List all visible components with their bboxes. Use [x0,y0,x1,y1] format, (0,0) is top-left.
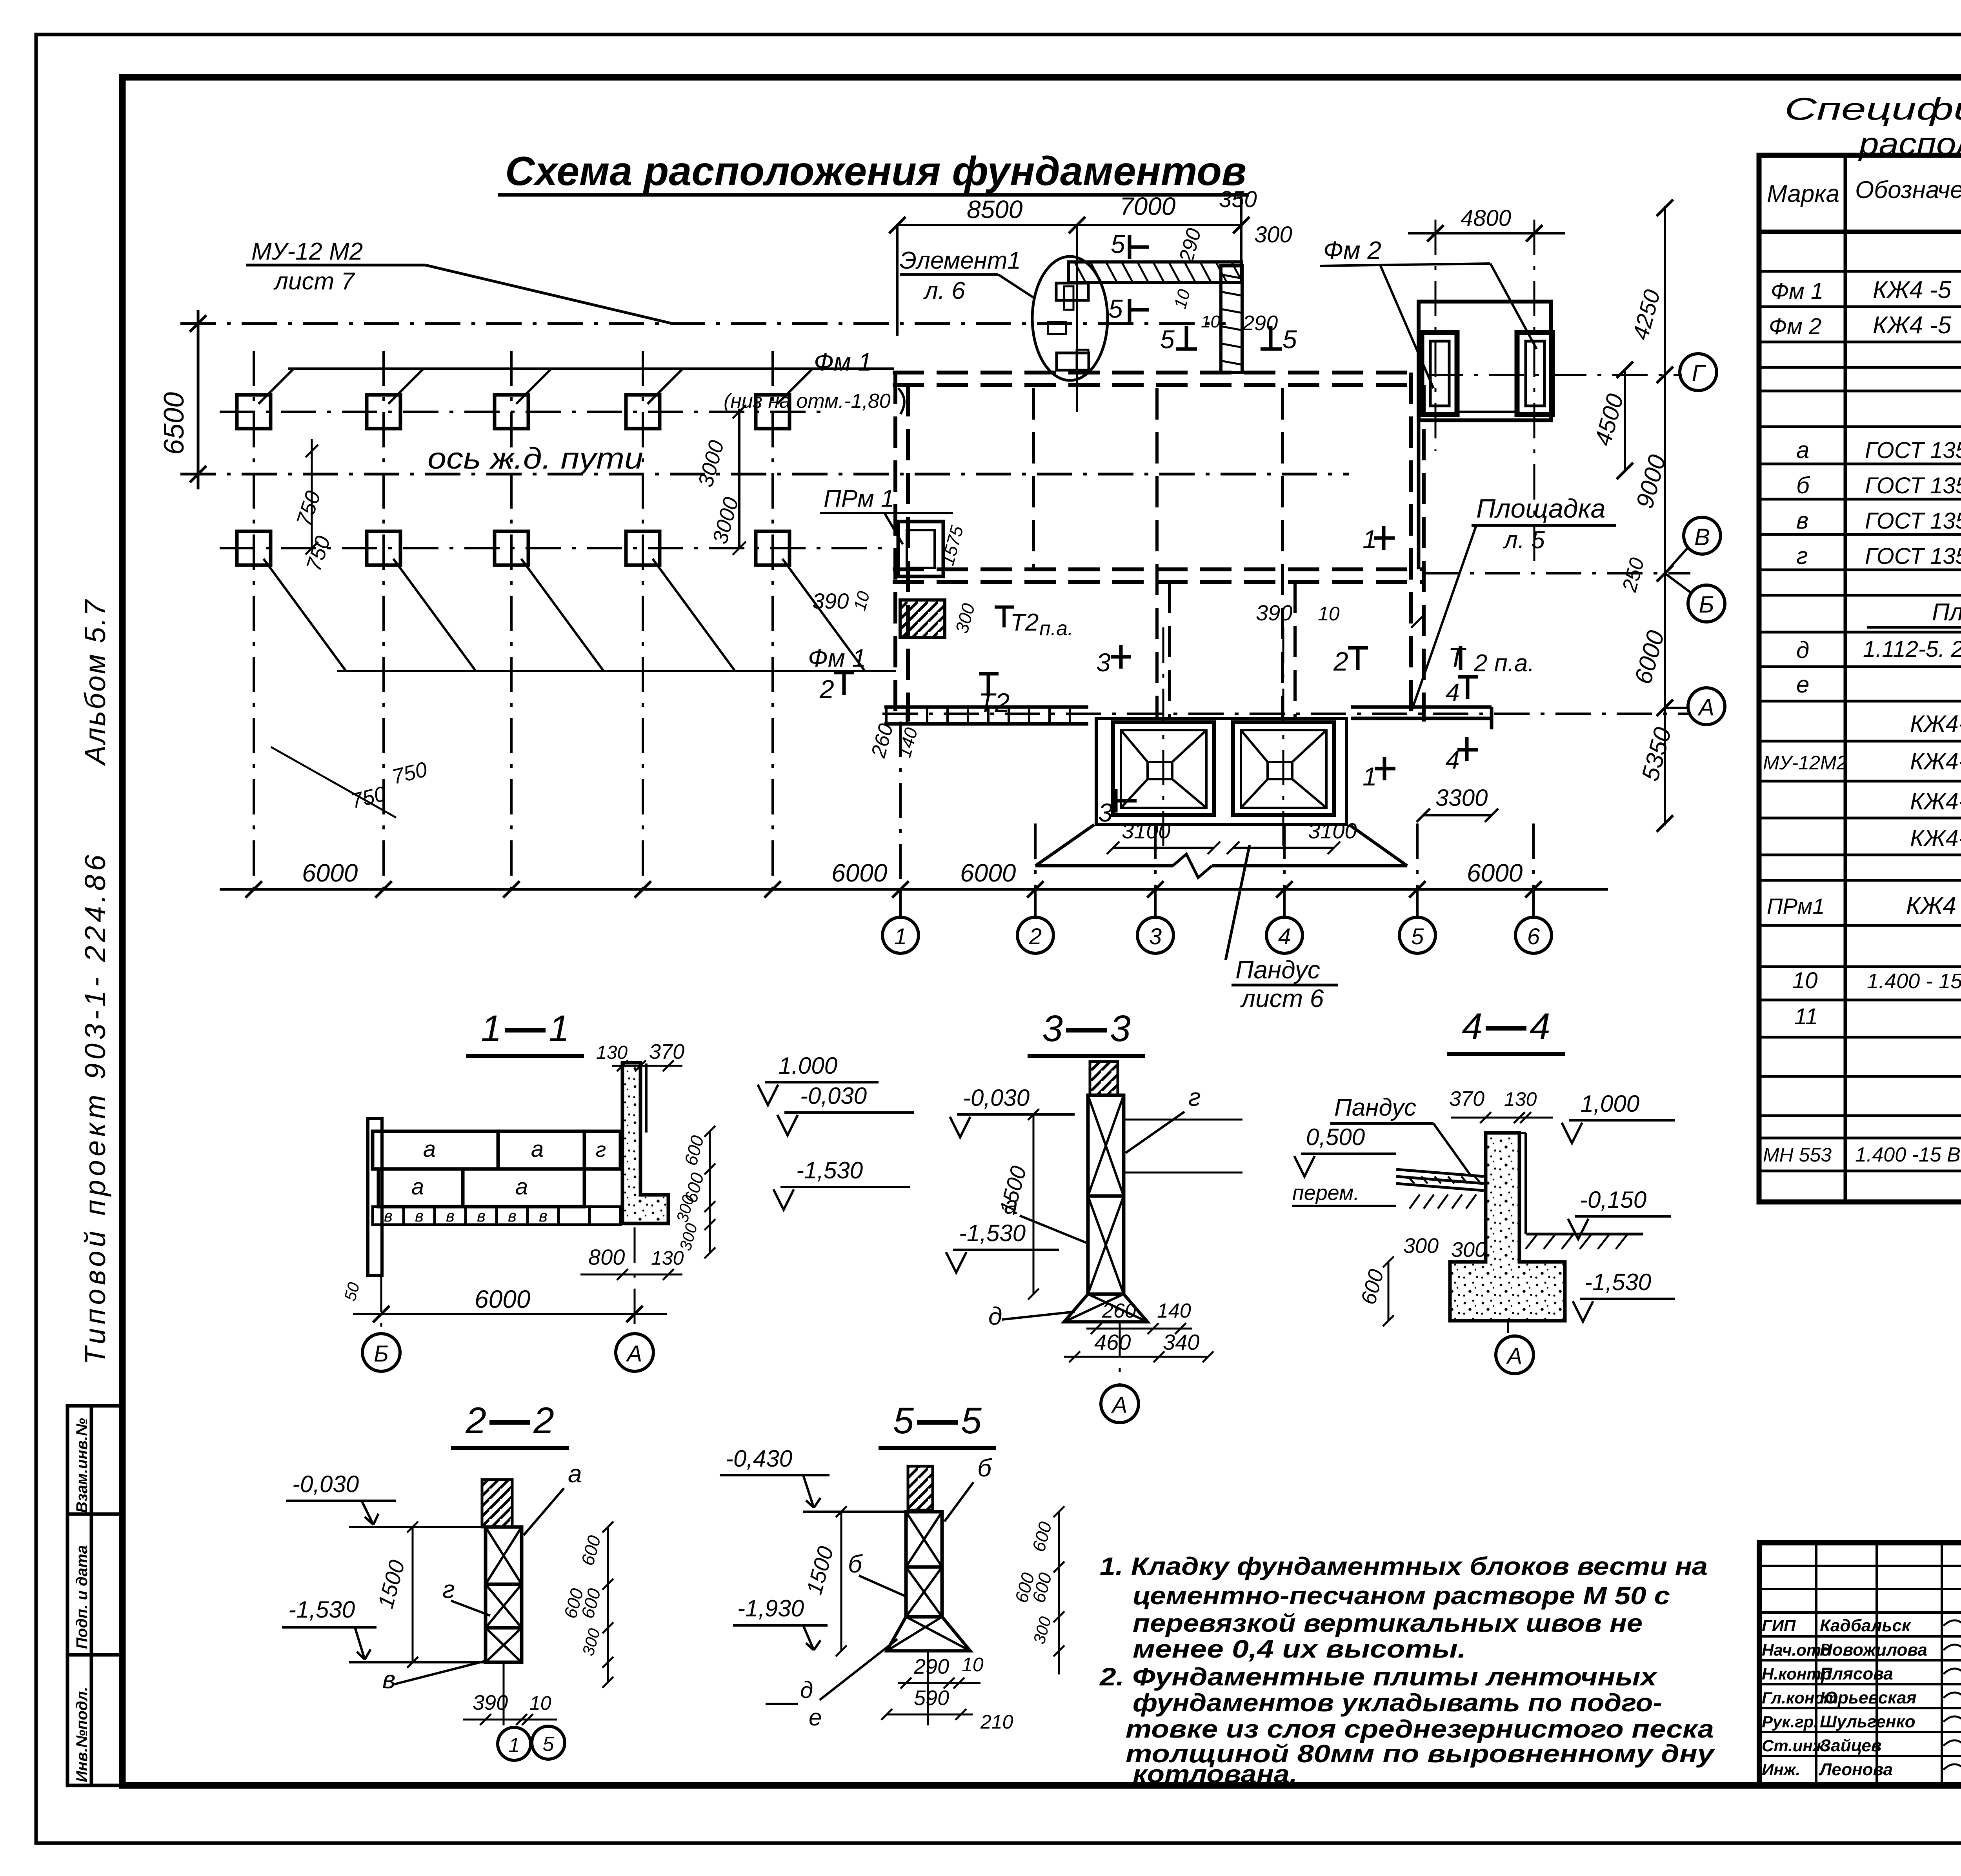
section 1-1 axis circles [362,1334,400,1371]
svg-text:4: 4 [1446,678,1460,707]
svg-text:800: 800 [588,1245,625,1269]
section 3-3 wall above (hatched) [1090,1062,1118,1095]
svg-text:КЖ4 -5: КЖ4 -5 [1873,276,1952,304]
svg-text:10: 10 [1318,603,1340,625]
svg-text:1: 1 [894,924,907,949]
svg-text:в: в [415,1207,424,1225]
Fm2 block 2 [1517,333,1552,414]
svg-text:в: в [446,1207,455,1225]
title block frame [1759,1543,1961,1785]
svg-text:Площадка: Площадка [1476,494,1605,524]
svg-text:-1,530: -1,530 [959,1220,1026,1246]
pits (coal receiving) boundary [1096,718,1346,825]
svg-text:д: д [800,1677,813,1703]
svg-text:Схема расположения фундамент: Схема расположения фундаментов [505,149,1246,194]
svg-text:Плясова: Плясова [1820,1664,1893,1683]
svg-text:Новожилова: Новожилова [1820,1640,1927,1660]
svg-text:Спецификация элементов к: Спецификация элементов к схеме [1785,91,1961,126]
svg-text:2: 2 [819,674,834,703]
svg-text:2: 2 [465,1400,486,1442]
interior partition x2950 [1155,388,1159,720]
interior partition x2635 [1032,388,1035,569]
svg-text:г: г [596,1138,606,1162]
svg-text:ГОСТ 13579 -78: ГОСТ 13579 -78 [1865,438,1961,463]
building right wall col 5 [1409,373,1413,722]
svg-text:А: А [626,1341,642,1367]
svg-text:2: 2 [1333,647,1348,676]
svg-text:д: д [988,1302,1002,1330]
svg-text:КЖ4 -5: КЖ4 -5 [1873,312,1952,339]
svg-text:е: е [1796,671,1809,698]
svg-text:В: В [1694,524,1710,550]
svg-text:г: г [1796,543,1808,569]
svg-text:А: А [1697,694,1714,720]
section 2-2 column blocks [486,1527,522,1584]
svg-text:в: в [384,1207,393,1225]
svg-text:1.112-5. 2.09.000: 1.112-5. 2.09.000 [1863,636,1961,662]
section 5-5 column blocks [906,1512,942,1567]
section 1-1 foundation column [622,1063,668,1223]
svg-text:Юрьевская: Юрьевская [1820,1688,1917,1707]
svg-text:350: 350 [1219,187,1257,212]
svg-text:4: 4 [1278,924,1291,949]
section 2-2 wall above (hatched) [482,1480,512,1527]
foundation squares Fm1 row 1 [237,395,271,429]
bottom dimension line [220,888,1608,891]
svg-text:290: 290 [913,1655,949,1678]
svg-text:130: 130 [1504,1088,1537,1110]
section 4-4 ramp slab [1396,1169,1484,1176]
section 3-3 axis circle A [1101,1385,1139,1423]
section 4-4 column (concrete) [1450,1133,1565,1321]
svg-text:3100: 3100 [1308,818,1357,843]
svg-text:370: 370 [649,1040,684,1063]
svg-text:-0,150: -0,150 [1580,1187,1646,1213]
building wall line G [893,371,1424,374]
svg-text:590: 590 [914,1686,949,1710]
svg-text:а: а [423,1136,436,1162]
svg-text:Подп. и дата: Подп. и дата [73,1545,91,1649]
svg-text:3: 3 [1042,1008,1063,1049]
svg-text:МУ-12М2: МУ-12М2 [1763,752,1848,774]
platform outline [1419,302,1551,420]
Pandus list 6 label [1226,845,1250,960]
svg-text:г: г [1188,1083,1201,1111]
svg-text:Марка: Марка [1767,180,1839,207]
section 1-1 masonry blocks [373,1131,498,1169]
axis circle G [1680,354,1717,391]
svg-text:6000: 6000 [831,859,888,887]
svg-text:Шульгенко: Шульгенко [1820,1712,1916,1731]
svg-text:5: 5 [1111,229,1125,258]
svg-text:370: 370 [1449,1087,1484,1111]
svg-text:Ст.инж.: Ст.инж. [1762,1736,1829,1755]
svg-text:-1,530: -1,530 [1584,1269,1651,1295]
svg-text:6000: 6000 [960,859,1016,887]
section 2-2 right dims [607,1527,609,1682]
svg-text:3: 3 [1096,648,1111,677]
section 4-4 axis circle [1507,1321,1509,1333]
axis G continuation [1428,374,1549,376]
svg-text:Обозначение: Обозначение [1855,176,1961,204]
svg-text:лист 7: лист 7 [273,268,355,295]
svg-text:-1,530: -1,530 [796,1157,863,1183]
svg-text:4: 4 [1462,1006,1483,1047]
svg-text:6000: 6000 [475,1285,531,1313]
svg-text:1,000: 1,000 [1581,1091,1639,1117]
section 1-1 left wall [368,1118,382,1276]
section 1-1 right rotated dims [709,1131,711,1253]
svg-text:Г: Г [1692,360,1706,386]
svg-text:А: А [1111,1392,1128,1418]
svg-text:в: в [382,1665,395,1694]
svg-text:-1,930: -1,930 [737,1595,804,1622]
svg-text:ГИП: ГИП [1762,1616,1796,1635]
svg-text:фундаментов укладывать по п: фундаментов укладывать по подго- [1133,1689,1662,1717]
svg-text:ГОСТ 13579 -78: ГОСТ 13579 -78 [1865,473,1961,498]
svg-text:Леонова: Леонова [1819,1760,1893,1779]
block centerlines [1435,220,1437,451]
axis circle B [1688,585,1725,622]
svg-text:в: в [1796,507,1808,534]
foundation squares Fm1 row 2 [237,531,271,565]
svg-text:-1,530: -1,530 [288,1596,355,1623]
section 3-3 column blocks [1088,1095,1124,1196]
ramp [1035,825,1094,866]
svg-text:перевязкой вертикальных швов: перевязкой вертикальных швов не [1133,1609,1643,1637]
svg-text:1.000: 1.000 [779,1053,837,1079]
dims 3000 3000 [738,409,740,549]
section 2-2 dim 1500 [412,1527,414,1662]
building left wall col 1 [893,373,897,722]
column verticals below building [1034,823,1037,889]
svg-text:Пандус: Пандус [1235,956,1320,984]
svg-text:3: 3 [1098,798,1113,827]
svg-text:котлована.: котлована. [1133,1760,1297,1788]
svg-text:6000: 6000 [302,859,358,887]
svg-text:3100: 3100 [1122,818,1171,843]
pit 1 [1113,722,1214,815]
svg-text:5: 5 [961,1400,982,1442]
svg-text:а: а [515,1174,528,1200]
svg-text:б: б [848,1550,863,1578]
svg-text:Плиты для ленточных фундамен: Плиты для ленточных фундаментов [1932,599,1961,626]
svg-text:5: 5 [543,1733,555,1756]
svg-text:5: 5 [1411,924,1424,949]
svg-text:260: 260 [1102,1300,1136,1322]
svg-text:менее 0,4 их высоты.: менее 0,4 их высоты. [1133,1635,1466,1663]
svg-text:1: 1 [549,1008,569,1049]
svg-text:2: 2 [1029,924,1042,949]
column grid dash-dot verticals [253,351,255,889]
svg-text:КЖ4-6: КЖ4-6 [1910,711,1961,737]
specification table grid [1759,155,1961,1202]
svg-text:в: в [508,1207,517,1225]
pit 2 [1233,722,1334,815]
svg-text:КЖ4-6: КЖ4-6 [1910,825,1961,851]
section 3-3 dim 1500 [1033,1114,1035,1294]
svg-text:а: а [531,1136,544,1162]
dim line 4500 [1624,370,1626,471]
svg-text:Инж.: Инж. [1762,1760,1800,1779]
svg-text:10: 10 [529,1692,551,1714]
svg-text:-0,430: -0,430 [726,1445,792,1472]
svg-text:(низ на отм.-1,80: (низ на отм.-1,80 [724,390,891,413]
pit PRm1 [898,522,943,576]
svg-text:7000: 7000 [1120,192,1176,220]
column axis circles 1-6 [899,889,902,918]
element1 balloon [1032,256,1108,380]
svg-text:ось ж.д. пути: ось ж.д. пути [427,442,643,475]
row2 center line [220,547,890,549]
svg-text:3: 3 [1149,924,1162,949]
svg-text:КЖ4-7: КЖ4-7 [1910,748,1961,774]
svg-text:Зайцев: Зайцев [1820,1736,1881,1755]
svg-text:-0,030: -0,030 [963,1085,1030,1111]
dim 4800 [1408,232,1565,234]
axis circle V [1684,517,1721,554]
svg-text:л. 5: л. 5 [1503,527,1545,554]
svg-text:2 п.а.: 2 п.а. [1473,650,1535,677]
svg-text:Б: Б [1699,591,1714,618]
svg-text:2. Фундаментные плиты ленто: 2. Фундаментные плиты ленточных [1099,1663,1658,1691]
svg-text:10: 10 [962,1654,984,1676]
svg-text:д: д [1796,637,1809,663]
svg-text:а: а [1796,437,1809,463]
axis circle A [1688,688,1725,725]
svg-text:210: 210 [980,1711,1013,1733]
axis A dash-dot [882,713,1690,715]
svg-text:ГОСТ 13579 -78: ГОСТ 13579 -78 [1865,508,1961,534]
svg-text:6500: 6500 [158,392,190,455]
svg-text:МУ-12 М2: МУ-12 М2 [251,238,363,265]
svg-text:МН 553: МН 553 [1763,1144,1832,1166]
svg-text:300: 300 [1254,222,1292,247]
section 5-5 dim 1500 [840,1512,842,1651]
leader line Fm1 bottom row [337,670,896,672]
svg-text:300: 300 [1403,1234,1439,1258]
hatched gate block [900,600,945,638]
svg-text:перем.: перем. [1292,1181,1359,1205]
svg-text:Т2: Т2 [1010,609,1039,636]
svg-text:в: в [539,1207,548,1225]
svg-text:10: 10 [1792,968,1818,993]
svg-text:390: 390 [812,589,849,613]
svg-text:-0,030: -0,030 [292,1471,359,1497]
dim line 8500 / 7000 [897,224,1241,226]
svg-text:6: 6 [1527,924,1540,949]
svg-text:1: 1 [1363,762,1377,791]
svg-text:ПРм 1: ПРм 1 [824,485,895,512]
railway axis top [180,322,1226,325]
svg-text:б: б [977,1454,992,1482]
svg-text:1.400 - 15 В1.550-06: 1.400 - 15 В1.550-06 [1867,969,1961,993]
svg-text:0,500: 0,500 [1306,1124,1365,1150]
svg-text:товке из слоя среднезернисто: товке из слоя среднезернистого песка [1126,1715,1714,1743]
svg-text:Кадбальск: Кадбальск [1820,1616,1912,1635]
section 5-5 right dims [1058,1512,1060,1674]
svg-text:г: г [442,1575,455,1603]
section 3-3 base trapezoid [1064,1294,1148,1322]
svg-text:Рук.гр.: Рук.гр. [1762,1712,1818,1731]
svg-text:10: 10 [1201,312,1220,331]
svg-text:5: 5 [1160,325,1175,354]
svg-text:Пандус: Пандус [1334,1094,1416,1121]
svg-text:1. Кладку фундаментных блоко: 1. Кладку фундаментных блоков вести на [1100,1552,1708,1580]
svg-text:л. 6: л. 6 [923,277,965,304]
svg-text:Т: Т [1448,642,1466,673]
row1 center line [220,411,828,413]
svg-text:1.400 -15 В1.550-04: 1.400 -15 В1.550-04 [1855,1143,1961,1166]
svg-text:а: а [411,1174,424,1200]
svg-text:Элемент1: Элемент1 [900,247,1021,274]
overhead gallery band vertical [1221,266,1242,373]
svg-text:460: 460 [1094,1330,1131,1354]
section 5-5 base trapezoid [887,1617,970,1651]
svg-text:Альбом 5.7: Альбом 5.7 [79,599,111,766]
svg-text:б: б [1796,472,1810,498]
svg-text:Фм 1: Фм 1 [808,644,866,672]
svg-text:3300: 3300 [1435,785,1488,811]
Fm2 block 1 [1422,333,1457,414]
svg-text:Б: Б [374,1341,389,1367]
svg-text:Фм 1: Фм 1 [814,348,872,376]
svg-text:лист 6: лист 6 [1240,984,1324,1013]
leader line Fm1 top row [288,367,894,370]
svg-text:340: 340 [1163,1330,1199,1354]
left margin stamp strip [67,1406,122,1785]
svg-text:Взам.инв.№: Взам.инв.№ [73,1418,91,1513]
svg-text:390: 390 [1256,600,1292,625]
svg-text:5: 5 [1108,294,1123,323]
svg-text:п.а.: п.а. [1039,617,1073,640]
svg-text:1: 1 [509,1734,520,1757]
svg-text:4: 4 [1530,1006,1550,1047]
svg-text:300: 300 [1451,1238,1486,1262]
svg-text:-0,030: -0,030 [800,1083,867,1109]
svg-text:3: 3 [1110,1008,1131,1049]
main right dim line [1664,206,1666,825]
svg-text:130: 130 [651,1247,684,1269]
dim 6500 [197,310,200,489]
svg-text:КЖ4 - 9: КЖ4 - 9 [1906,892,1961,919]
svg-text:Фм 1: Фм 1 [1771,278,1823,304]
pit center dashdot verticals [1162,627,1164,847]
svg-text:КЖ4-5: КЖ4-5 [1910,788,1961,814]
axis A strip east [1351,705,1492,709]
svg-text:е: е [809,1704,822,1731]
svg-text:в: в [477,1207,486,1225]
svg-text:Фм 2: Фм 2 [1769,314,1821,339]
svg-text:А: А [1506,1343,1523,1369]
svg-text:4800: 4800 [1461,205,1511,231]
svg-text:2: 2 [533,1400,554,1442]
svg-text:140: 140 [1157,1300,1191,1322]
overhead gallery band horizontal [1068,262,1241,282]
svg-text:130: 130 [596,1042,628,1063]
railway axis (os zh.d. puti) [180,473,1349,476]
axis A strip west (block ladder) [884,705,1088,709]
section 5-5 wall above (hatched) [908,1466,933,1510]
svg-text:ПРм1: ПРм1 [1767,894,1825,918]
svg-text:Фм 2: Фм 2 [1323,236,1381,264]
svg-text:Инв.№подл.: Инв.№подл. [73,1687,91,1782]
svg-text:1: 1 [481,1008,502,1049]
svg-text:5: 5 [893,1400,914,1442]
svg-text:5: 5 [1282,325,1297,354]
svg-text:6000: 6000 [1467,859,1523,887]
svg-text:цементно-песчаном растворе М: цементно-песчаном растворе М 50 с [1133,1582,1670,1610]
svg-text:а: а [568,1460,582,1488]
svg-text:11: 11 [1794,1004,1818,1029]
building wall line B (axis B/V) [893,567,1424,571]
svg-text:ГОСТ 13579 -78: ГОСТ 13579 -78 [1865,544,1961,569]
interior partition x3270 [1281,388,1284,720]
svg-text:8500: 8500 [967,195,1023,224]
svg-text:Т2: Т2 [979,688,1010,718]
section 2-2 circles 1 and 5 [498,1727,531,1760]
